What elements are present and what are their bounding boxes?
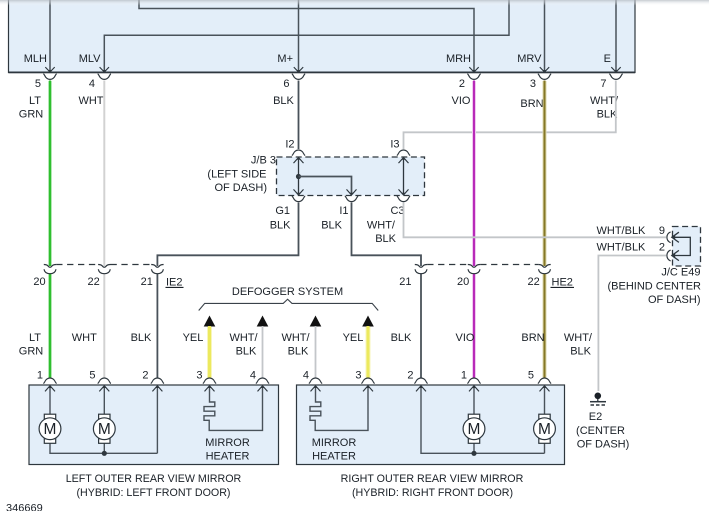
svg-text:3: 3 — [355, 370, 361, 382]
svg-text:2: 2 — [142, 370, 148, 382]
svg-text:(LEFT SIDE: (LEFT SIDE — [207, 169, 266, 181]
svg-text:21: 21 — [141, 276, 153, 288]
svg-text:WHT: WHT — [72, 332, 97, 344]
svg-text:BRN: BRN — [521, 332, 544, 344]
svg-text:22: 22 — [88, 276, 100, 288]
svg-text:IE2: IE2 — [166, 277, 183, 289]
svg-text:BLK: BLK — [236, 346, 257, 358]
svg-text:(CENTER: (CENTER — [576, 425, 625, 437]
svg-text:5: 5 — [528, 370, 534, 382]
svg-text:WHT/: WHT/ — [564, 332, 593, 344]
svg-text:WHT/: WHT/ — [281, 332, 310, 344]
svg-text:J/C E49: J/C E49 — [661, 267, 700, 279]
svg-text:20: 20 — [33, 276, 45, 288]
svg-text:I2: I2 — [285, 139, 294, 151]
svg-text:BLK: BLK — [270, 220, 291, 232]
svg-text:22: 22 — [528, 276, 540, 288]
svg-text:YEL: YEL — [343, 332, 364, 344]
svg-text:E2: E2 — [589, 411, 602, 423]
svg-text:4: 4 — [250, 370, 256, 382]
svg-text:BLK: BLK — [273, 95, 294, 107]
svg-text:MLV: MLV — [79, 53, 101, 65]
svg-text:BRN: BRN — [520, 98, 543, 110]
svg-text:BLK: BLK — [131, 332, 152, 344]
svg-text:OF DASH): OF DASH) — [214, 182, 267, 194]
svg-text:WHT/BLK: WHT/BLK — [597, 225, 647, 237]
svg-text:MRV: MRV — [517, 53, 542, 65]
svg-text:4: 4 — [89, 78, 95, 90]
svg-text:BLK: BLK — [321, 220, 342, 232]
svg-text:OF DASH): OF DASH) — [648, 294, 701, 306]
svg-text:BLK: BLK — [570, 346, 591, 358]
svg-text:MLH: MLH — [24, 53, 47, 65]
svg-text:C3: C3 — [390, 205, 404, 217]
svg-text:MIRROR: MIRROR — [205, 437, 250, 449]
svg-text:21: 21 — [399, 276, 411, 288]
svg-text:VIO: VIO — [456, 332, 475, 344]
svg-text:346669: 346669 — [6, 503, 43, 511]
svg-text:HEATER: HEATER — [206, 450, 250, 462]
svg-text:WHT/: WHT/ — [590, 95, 619, 107]
svg-text:5: 5 — [35, 78, 41, 90]
svg-text:VIO: VIO — [452, 95, 471, 107]
svg-text:GRN: GRN — [19, 346, 44, 358]
svg-text:MIRROR: MIRROR — [312, 437, 357, 449]
svg-text:BLK: BLK — [597, 109, 618, 121]
svg-text:3: 3 — [196, 370, 202, 382]
svg-text:9: 9 — [659, 225, 665, 237]
svg-text:WHT/: WHT/ — [367, 220, 396, 232]
svg-text:LT: LT — [29, 332, 41, 344]
svg-text:WHT: WHT — [78, 95, 103, 107]
svg-text:BLK: BLK — [391, 332, 412, 344]
svg-text:4: 4 — [303, 370, 309, 382]
svg-text:RIGHT OUTER REAR VIEW MIRROR: RIGHT OUTER REAR VIEW MIRROR — [341, 473, 524, 485]
svg-text:(BEHIND CENTER: (BEHIND CENTER — [607, 281, 701, 293]
svg-text:I1: I1 — [339, 205, 348, 217]
svg-text:HE2: HE2 — [552, 277, 573, 289]
svg-text:7: 7 — [600, 78, 606, 90]
svg-text:2: 2 — [659, 241, 665, 253]
svg-text:G1: G1 — [275, 205, 290, 217]
svg-text:LEFT OUTER REAR VIEW MIRROR: LEFT OUTER REAR VIEW MIRROR — [66, 473, 242, 485]
svg-text:6: 6 — [283, 78, 289, 90]
svg-text:WHT/BLK: WHT/BLK — [597, 241, 647, 253]
svg-text:M+: M+ — [277, 53, 293, 65]
svg-text:LT: LT — [29, 95, 41, 107]
svg-text:DEFOGGER SYSTEM: DEFOGGER SYSTEM — [232, 286, 343, 298]
svg-text:BLK: BLK — [375, 233, 396, 245]
svg-text:2: 2 — [459, 78, 465, 90]
svg-text:WHT/: WHT/ — [229, 332, 258, 344]
svg-text:HEATER: HEATER — [312, 450, 356, 462]
svg-text:(HYBRID: LEFT FRONT DOOR): (HYBRID: LEFT FRONT DOOR) — [77, 487, 231, 499]
svg-text:OF DASH): OF DASH) — [577, 438, 630, 450]
svg-text:2: 2 — [407, 370, 413, 382]
svg-text:J/B 3: J/B 3 — [251, 155, 276, 167]
svg-text:GRN: GRN — [19, 109, 44, 121]
svg-text:3: 3 — [530, 78, 536, 90]
svg-text:5: 5 — [89, 370, 95, 382]
svg-text:YEL: YEL — [183, 332, 204, 344]
svg-text:1: 1 — [37, 370, 43, 382]
svg-text:1: 1 — [461, 370, 467, 382]
svg-text:I3: I3 — [390, 139, 399, 151]
svg-text:E: E — [604, 53, 611, 65]
svg-text:MRH: MRH — [446, 53, 471, 65]
svg-text:20: 20 — [457, 276, 469, 288]
svg-text:(HYBRID: RIGHT FRONT DOOR): (HYBRID: RIGHT FRONT DOOR) — [352, 487, 513, 499]
svg-text:BLK: BLK — [288, 346, 309, 358]
